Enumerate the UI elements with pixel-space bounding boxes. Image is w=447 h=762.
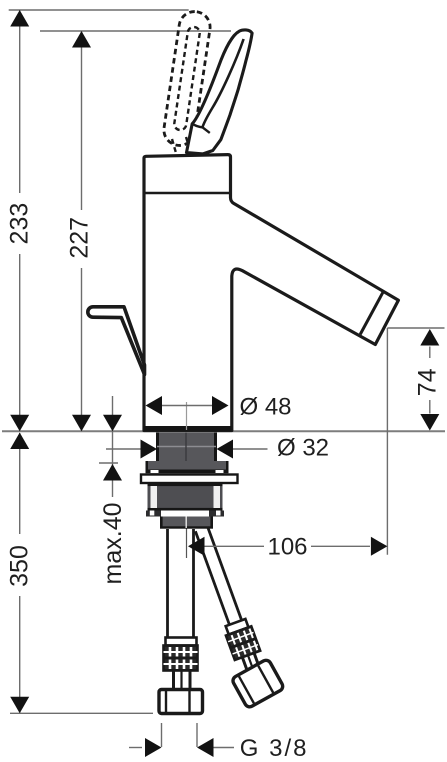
dim line 106 — [204, 545, 265, 547]
mounting flange — [146, 461, 229, 470]
arrow 227 bottom — [72, 415, 91, 432]
extension tick 74 top — [387, 327, 444, 329]
svg-text:Ø 48: Ø 48 — [240, 394, 292, 421]
mounting nut — [148, 484, 223, 511]
threaded shaft — [156, 433, 217, 462]
dim line 74 vertical — [429, 347, 431, 359]
arrow O48 left — [146, 396, 163, 415]
dim line G3/8 left tail — [129, 747, 142, 749]
hose tube — [195, 531, 229, 625]
countertop line — [2, 430, 445, 432]
dim line max40 vertical — [112, 396, 114, 431]
arrow O32 right (points left) — [217, 440, 234, 459]
svg-text:Ø 32: Ø 32 — [277, 435, 329, 462]
arrow 227 top — [72, 31, 91, 48]
arrow 74 top — [420, 329, 439, 346]
hose tube 2 — [242, 657, 247, 671]
extension line top 227 — [40, 30, 231, 32]
hose tube 2 — [172, 671, 175, 690]
extension lines G3/8 — [161, 723, 163, 747]
handle dashed loop inner — [173, 26, 200, 131]
hose braid — [226, 626, 260, 660]
dim line 350 vertical — [19, 433, 21, 534]
arrow G3/8 right (points left) — [197, 738, 214, 757]
hose nut G3/8 — [159, 690, 203, 714]
arrow G3/8 left (points right) — [145, 738, 162, 757]
vertical supply hose — [159, 529, 203, 714]
arrow 106 left — [188, 537, 205, 556]
arrow 233 top — [10, 10, 29, 27]
dim line O48 — [161, 405, 213, 407]
hose braid — [164, 646, 198, 671]
washer — [141, 475, 238, 484]
faucet body and spout outline — [144, 155, 398, 431]
dim line 227 vertical — [81, 31, 83, 210]
hose tube — [166, 529, 169, 639]
arrow 350 top — [10, 433, 29, 450]
arrow O48 right — [212, 396, 229, 415]
svg-text:max.40: max.40 — [99, 503, 127, 585]
arrow 106 right — [371, 537, 388, 556]
arrow 233 bottom — [10, 415, 29, 432]
svg-text:350: 350 — [6, 545, 34, 587]
svg-text:74: 74 — [414, 368, 442, 396]
svg-text:233: 233 — [5, 203, 33, 245]
handle dashed stem — [172, 139, 176, 153]
hose collar — [226, 619, 249, 635]
arrow O32 left (points right) — [141, 440, 158, 459]
arrow 74 bottom — [420, 414, 439, 431]
dim line G3/8 right tail — [214, 747, 235, 749]
cap bottom line — [144, 192, 230, 195]
aerator inner line — [360, 291, 384, 335]
handle solid inner line — [203, 39, 244, 127]
dim line O32 — [106, 448, 144, 450]
svg-text:106: 106 — [267, 534, 307, 561]
dim line 233 vertical — [19, 10, 21, 193]
arrow 350 bottom — [10, 697, 29, 714]
svg-text:G 3/8: G 3/8 — [240, 735, 309, 762]
body bottom dark band — [144, 426, 232, 431]
extension line top 233 — [9, 9, 189, 11]
svg-text:227: 227 — [66, 217, 94, 259]
extension line bottom 350 — [10, 712, 153, 714]
handle knee cut lines — [192, 124, 210, 133]
spout extension vertical line — [386, 328, 388, 555]
centerline faucet axis — [186, 402, 188, 430]
hose nut — [231, 658, 284, 708]
threaded tail — [160, 517, 213, 529]
angled supply hose — [180, 521, 287, 710]
nut feet — [146, 511, 161, 517]
arrow max40 bottom (points up) — [103, 464, 122, 481]
handle dashed loop outer — [162, 9, 212, 147]
centerline below shaft — [186, 528, 188, 558]
hose collar — [166, 638, 197, 646]
handle solid blade outer — [187, 30, 253, 154]
drain pull lever — [88, 307, 145, 375]
extension tick max40 bottom — [99, 462, 118, 464]
arrow max40 top (points down to countertop) — [103, 415, 122, 432]
